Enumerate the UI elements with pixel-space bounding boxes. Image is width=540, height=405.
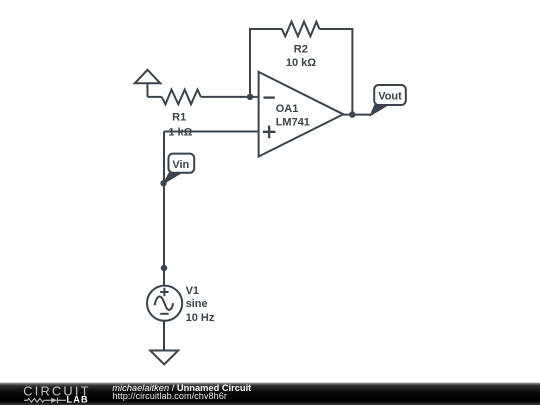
V1 minus sign xyxy=(160,313,168,315)
footer author line xyxy=(112,383,251,393)
op-amp plus sign xyxy=(263,126,276,139)
junction node at Vin tap xyxy=(160,180,166,186)
value label 10 kΩ xyxy=(286,57,316,69)
junction node at output xyxy=(349,111,355,117)
svg-text:LM741: LM741 xyxy=(276,116,310,128)
CircuitLab logo text LAB xyxy=(66,394,88,404)
label R1 xyxy=(172,112,186,124)
V1 plus sign xyxy=(160,288,168,296)
op-amp OA1 triangle xyxy=(259,72,344,157)
svg-text:R1: R1 xyxy=(172,112,186,124)
junction node at inverting input xyxy=(247,94,253,100)
V1 sine wave xyxy=(155,297,174,310)
svg-text:V1: V1 xyxy=(186,285,199,297)
svg-text:LAB: LAB xyxy=(66,394,88,404)
resistor R2 xyxy=(282,22,320,37)
resistor R1 xyxy=(162,90,201,105)
label V1 xyxy=(186,285,199,297)
wire feedback left vertical (inverting node up to top) xyxy=(249,29,251,97)
CircuitLab logo text CIRCUIT xyxy=(23,383,90,398)
wire V1 to ground xyxy=(163,321,165,351)
value label 1 kΩ xyxy=(168,127,192,139)
label 10 Hz xyxy=(186,312,215,324)
op-amp minus sign xyxy=(264,96,275,98)
svg-text:Vout: Vout xyxy=(378,91,402,103)
wire output to Vout xyxy=(343,114,371,116)
power flag triangle (up arrow) xyxy=(135,70,161,97)
CircuitLab logo schematic squiggle (resistor and diode) xyxy=(24,398,66,403)
svg-text:10 kΩ: 10 kΩ xyxy=(286,57,316,69)
wire top horizontal right of R2 xyxy=(319,28,352,30)
svg-text:Vin: Vin xyxy=(172,159,189,171)
label R2 xyxy=(294,44,308,56)
svg-text:10 Hz: 10 Hz xyxy=(186,312,215,324)
svg-text:R2: R2 xyxy=(294,44,308,56)
wire R1 to op-amp inverting input xyxy=(201,96,259,98)
label LM741 xyxy=(276,116,310,128)
footer url line xyxy=(112,391,226,401)
svg-text:OA1: OA1 xyxy=(276,103,299,115)
svg-text:1 kΩ: 1 kΩ xyxy=(168,127,192,139)
wire top horizontal left of R2 xyxy=(249,28,282,30)
wire non-inverting input horizontal xyxy=(164,130,259,132)
wire feedback right vertical down to output xyxy=(351,28,353,115)
net flag Vout xyxy=(370,85,406,116)
net flag Vin xyxy=(163,154,194,184)
wire Vin vertical xyxy=(163,131,165,286)
svg-text:http://circuitlab.com/chv8h6r: http://circuitlab.com/chv8h6r xyxy=(112,391,226,401)
label sine xyxy=(186,298,208,310)
ground symbol xyxy=(150,350,178,364)
voltage source V1 circle xyxy=(147,286,182,321)
footer bar xyxy=(0,382,540,405)
svg-text:sine: sine xyxy=(186,298,208,310)
junction node above V1 xyxy=(161,265,167,271)
wire from power stem to R1 xyxy=(148,96,162,98)
label OA1 xyxy=(276,103,299,115)
